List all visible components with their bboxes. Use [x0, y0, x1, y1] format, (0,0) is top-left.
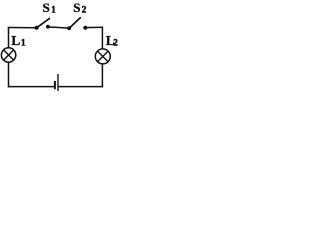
svg-text:L: L	[11, 33, 20, 48]
wire top-right horizontal	[85, 26, 103, 28]
svg-text:1: 1	[21, 38, 26, 48]
wire right vertical upper	[101, 27, 103, 49]
wire left vertical upper	[8, 27, 10, 48]
battery cell: long thin positive plate	[57, 74, 58, 91]
wire right vertical lower	[101, 64, 103, 87]
wire bottom-left horizontal	[8, 86, 54, 88]
switch S1	[35, 18, 50, 30]
svg-text:2: 2	[113, 38, 118, 48]
lamp L1	[1, 48, 15, 62]
battery cell: short thick negative plate	[54, 81, 56, 89]
svg-text:S: S	[73, 0, 80, 15]
wire top-middle horizontal	[48, 27, 69, 28]
switch S2	[67, 17, 87, 30]
wire bottom-right horizontal	[59, 86, 104, 88]
svg-text:1: 1	[51, 5, 56, 15]
lamp L2	[95, 49, 110, 64]
svg-text:2: 2	[82, 5, 87, 15]
wire top-left horizontal	[8, 27, 37, 29]
svg-text:S: S	[43, 0, 50, 15]
wire left vertical lower	[8, 62, 10, 87]
